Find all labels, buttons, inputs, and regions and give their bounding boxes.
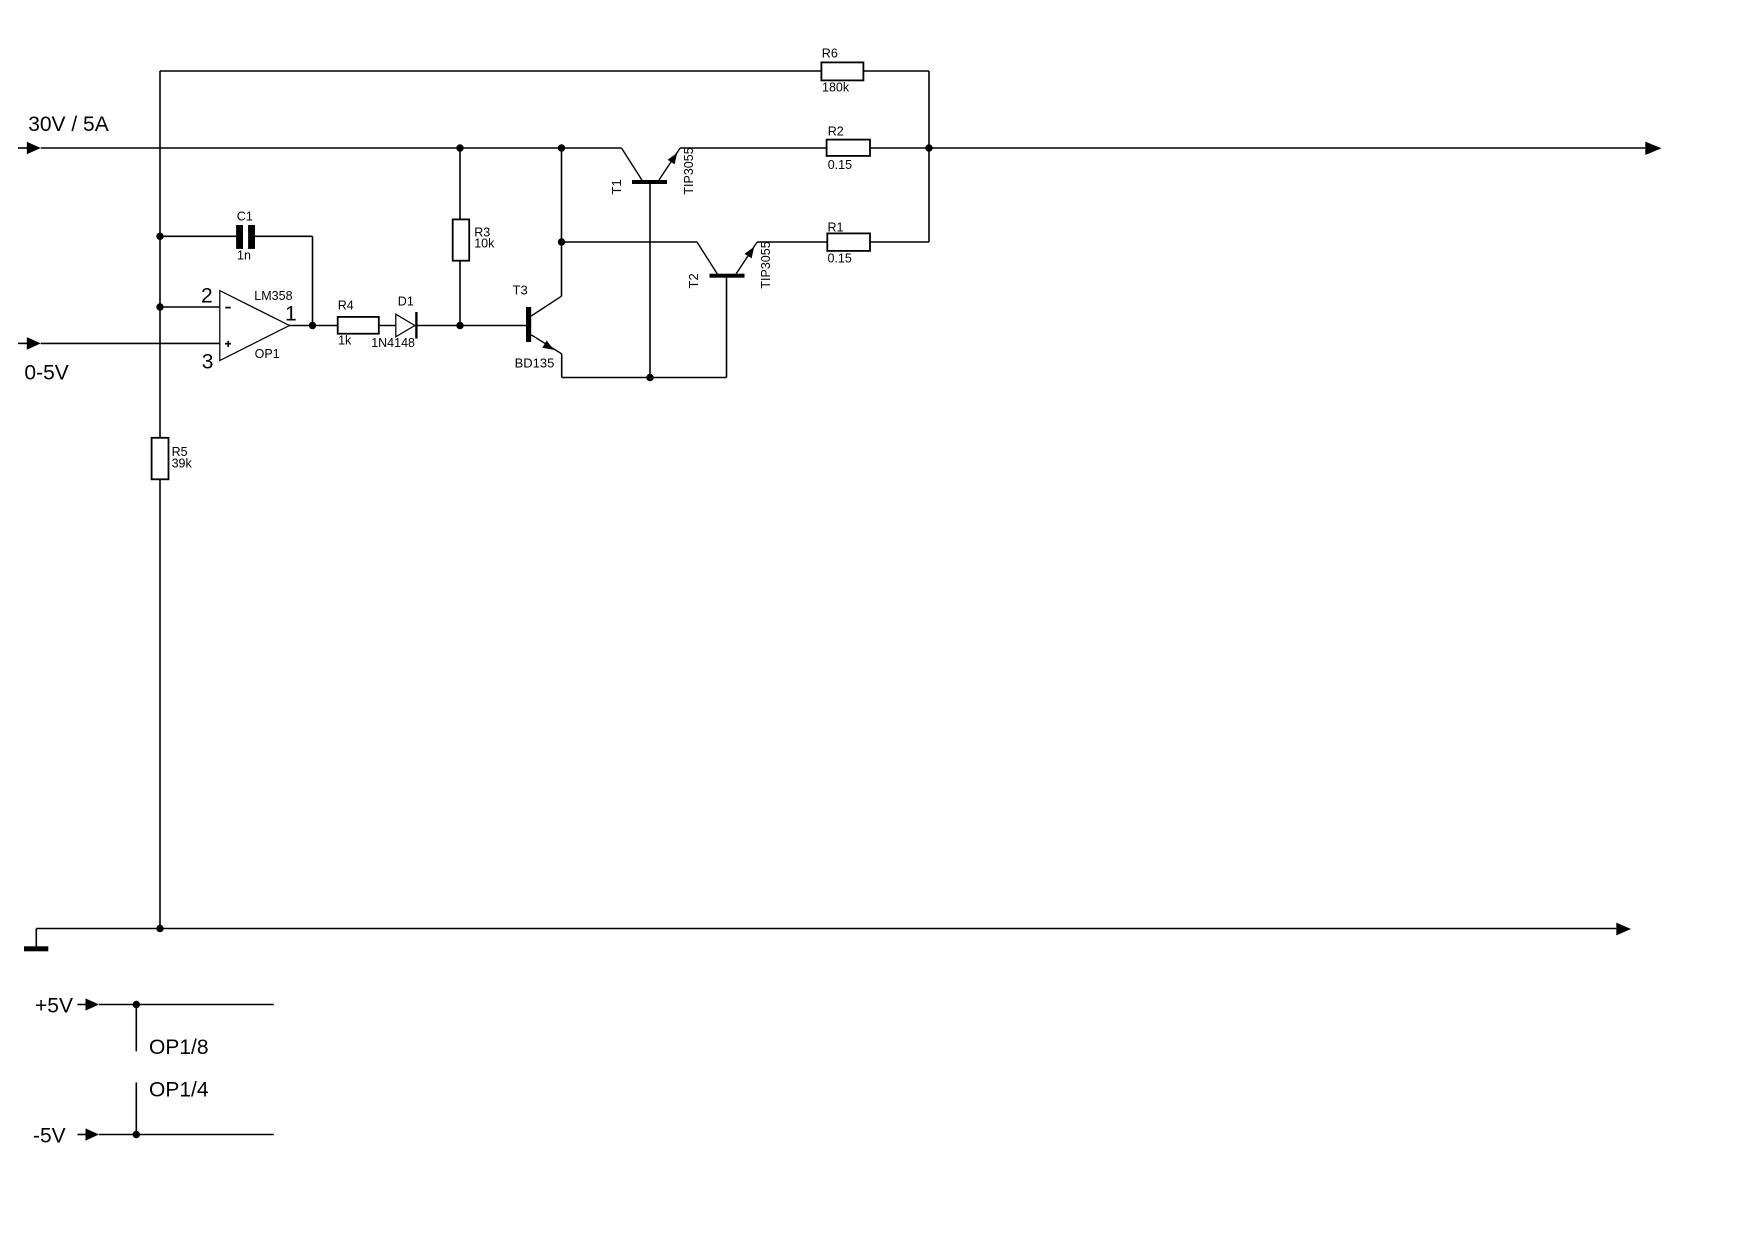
svg-text:0-5V: 0-5V — [24, 362, 68, 385]
output arrow top — [1645, 142, 1661, 155]
wire base bus bottom — [562, 377, 727, 379]
wire T3 base — [460, 325, 526, 327]
wire top feedback horizontal left of R6 — [160, 70, 821, 72]
input port 30V / 5A — [18, 113, 109, 154]
wire -5V rail — [99, 1134, 274, 1136]
wire op-amp non-inverting input from 0-5V — [41, 342, 220, 344]
svg-text:+5V: +5V — [35, 995, 73, 1018]
svg-text:1k: 1k — [338, 333, 352, 347]
wire R2 to output arrow — [870, 147, 1645, 149]
wire +5V rail — [99, 1004, 274, 1006]
svg-text:1N4148: 1N4148 — [371, 336, 415, 350]
svg-text:R4: R4 — [338, 299, 354, 313]
power port +5V — [35, 995, 99, 1018]
svg-text:1n: 1n — [237, 249, 251, 263]
svg-text:OP1: OP1 — [255, 347, 280, 361]
wire vertical feedback bus upper (through C1 and pin2 junctions) — [159, 71, 161, 438]
wire top feedback horizontal right of R6 — [863, 70, 929, 72]
node T2 collector branch — [558, 238, 565, 245]
wire R3 riser top — [459, 148, 461, 219]
wire op-amp inverting input — [160, 306, 220, 308]
resistor R6 — [821, 47, 863, 95]
node C1 left junction — [156, 233, 163, 240]
wire 30V rail — [41, 147, 622, 149]
svg-text:LM358: LM358 — [254, 289, 292, 303]
svg-text:2: 2 — [201, 284, 213, 307]
resistor R5 — [152, 438, 193, 480]
svg-text:BD135: BD135 — [515, 356, 555, 371]
wire R3 riser bottom — [459, 261, 461, 326]
wire T2 collector from riser — [562, 241, 698, 243]
node ground rail junction — [156, 925, 163, 932]
node output/C1 junction — [309, 322, 316, 329]
wire vertical R6/R1 riser to node at R2 — [928, 71, 930, 242]
node T1 base junction — [646, 374, 653, 381]
svg-text:D1: D1 — [398, 295, 414, 309]
wire T2 emitter to R1 — [757, 241, 827, 243]
svg-text:TIP3055: TIP3055 — [759, 241, 773, 288]
transistor T2 — [686, 241, 773, 377]
transistor T1 — [609, 147, 696, 377]
node -5V junction — [133, 1131, 140, 1138]
svg-text:10k: 10k — [474, 237, 495, 251]
wire ground rail — [36, 928, 1616, 930]
wire vertical feedback bus lower (R5 to ground rail) — [159, 479, 161, 928]
wire T3 emitter drop — [561, 354, 563, 378]
power port -5V — [33, 1125, 99, 1148]
wire C1 right — [255, 235, 313, 237]
svg-text:180k: 180k — [822, 80, 850, 94]
svg-text:T2: T2 — [686, 273, 701, 288]
svg-text:-5V: -5V — [33, 1125, 66, 1148]
svg-text:C1: C1 — [237, 210, 253, 224]
transistor T3 — [513, 283, 562, 371]
wire C1 feedback riser down to op-amp output — [312, 236, 314, 325]
svg-text:1: 1 — [285, 303, 297, 326]
output arrow bottom — [1616, 923, 1631, 936]
svg-text:R2: R2 — [828, 125, 844, 139]
svg-text:T3: T3 — [513, 283, 528, 298]
svg-text:OP1/4: OP1/4 — [149, 1078, 209, 1101]
wire C1 left — [160, 235, 236, 237]
svg-text:3: 3 — [202, 351, 214, 374]
svg-text:TIP3055: TIP3055 — [682, 147, 696, 194]
resistor R4 — [338, 299, 379, 348]
svg-text:OP1/8: OP1/8 — [149, 1036, 209, 1059]
node pin2 junction — [156, 303, 163, 310]
resistor R3 — [453, 219, 495, 260]
wire T1 emitter to R2 — [680, 147, 827, 149]
capacitor C1 — [236, 210, 255, 263]
wire op-amp output — [289, 325, 337, 327]
node +5V junction — [133, 1001, 140, 1008]
input port 0-5V — [18, 337, 69, 385]
svg-text:0.15: 0.15 — [828, 252, 852, 266]
node output junction R2/R6/R1 — [925, 144, 932, 151]
wire T3 collector riser — [561, 148, 563, 296]
wire R1 to riser — [870, 241, 929, 243]
svg-text:0.15: 0.15 — [828, 158, 852, 172]
svg-text:R6: R6 — [822, 47, 838, 61]
wire OP1 pin4 stub — [135, 1083, 137, 1135]
diode D1 — [371, 295, 416, 350]
wire D1 to node — [418, 325, 461, 327]
node D1/R3/T3 junction — [456, 322, 463, 329]
wire R4 to D1 — [379, 325, 396, 327]
node R3 top junction on 30V rail — [456, 144, 463, 151]
resistor R1 — [827, 221, 870, 266]
ground — [24, 946, 48, 951]
resistor R2 — [827, 125, 870, 173]
wire ground drop — [35, 929, 37, 947]
svg-text:T1: T1 — [609, 179, 624, 194]
op-amp OP1 — [220, 289, 293, 361]
wire OP1 pin8 stub — [135, 1005, 137, 1052]
svg-text:R1: R1 — [828, 221, 844, 235]
svg-text:30V / 5A: 30V / 5A — [28, 113, 109, 136]
node T3 collector on 30V rail — [558, 144, 565, 151]
svg-text:39k: 39k — [172, 457, 193, 471]
